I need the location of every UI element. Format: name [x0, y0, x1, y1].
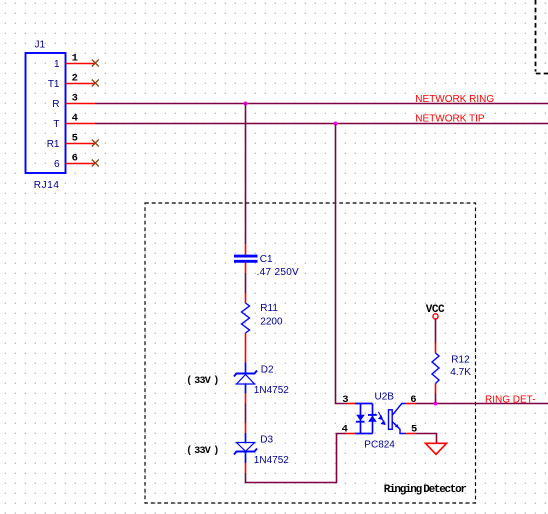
svg-text:.47 250V: .47 250V	[257, 267, 299, 278]
junction on NETWORK TIP	[334, 122, 338, 126]
R11 pin 1	[245, 293, 247, 303]
light arrow	[378, 412, 385, 425]
R12 pin 2	[435, 384, 437, 394]
wire tip branch to opto pin 3	[336, 124, 347, 404]
J1 pin 2 stub	[66, 83, 96, 85]
svg-text:VCC: VCC	[426, 304, 445, 316]
zener diode D2	[234, 363, 257, 394]
wire pin5 to ground	[416, 434, 437, 444]
svg-text:6: 6	[410, 394, 416, 406]
U2B pin 4 stub	[346, 433, 356, 435]
wire VCC to R12	[435, 319, 437, 344]
zener diode D3	[234, 433, 257, 463]
wire NETWORK RING	[95, 103, 548, 105]
J1 pin 3 stub	[66, 103, 96, 105]
dashed block fragment top-right	[536, 0, 548, 74]
junction at R12 bottom	[434, 402, 438, 406]
R11 pin 2 / D2 pin 1	[245, 333, 247, 363]
phototransistor of U2B	[389, 404, 407, 434]
U2B pin 3 stub	[347, 403, 356, 405]
wire RING DET-	[416, 403, 548, 405]
svg-text:6: 6	[54, 159, 60, 170]
wire D2 to D3	[245, 404, 247, 424]
svg-text:4: 4	[342, 424, 348, 436]
R12 pin 1	[435, 343, 437, 353]
svg-text:1: 1	[72, 53, 78, 65]
wire C1 to R11	[245, 273, 247, 294]
svg-text:5: 5	[72, 133, 78, 145]
U2B pin 6 stub	[406, 403, 416, 405]
no-connect X pin 6	[92, 160, 99, 167]
svg-text:NETWORK RING: NETWORK RING	[415, 94, 494, 105]
D2 pin 2	[245, 393, 247, 403]
svg-text:4.7K: 4.7K	[450, 367, 471, 378]
svg-text:D3: D3	[260, 435, 273, 446]
D3 pin 2	[245, 463, 247, 473]
VCC power symbol	[433, 314, 438, 319]
wire R12 to junction	[435, 394, 437, 404]
resistor R12	[432, 353, 439, 384]
no-connect X pin 1	[92, 60, 99, 67]
svg-text:(33V): (33V)	[186, 375, 219, 387]
svg-text:4: 4	[72, 113, 78, 125]
svg-text:6: 6	[72, 153, 78, 165]
wire NETWORK TIP	[95, 123, 548, 125]
no-connect X pin 5	[92, 140, 99, 147]
svg-text:2: 2	[72, 73, 78, 85]
svg-text:D2: D2	[261, 365, 274, 376]
svg-text:2200: 2200	[260, 317, 283, 328]
connector J1 body	[26, 53, 66, 173]
svg-text:1N4752: 1N4752	[254, 385, 289, 396]
svg-text:NETWORK TIP: NETWORK TIP	[415, 114, 485, 125]
C1 pin 1	[245, 244, 247, 255]
svg-text:U2B: U2B	[375, 392, 395, 403]
no-connect X pin 2	[92, 80, 99, 87]
wire bottom rail	[246, 434, 346, 483]
U2B pin 5 stub	[406, 433, 416, 435]
J1 pin 6 stub	[66, 163, 96, 165]
LED A of U2B	[356, 415, 365, 422]
svg-text:3: 3	[72, 93, 78, 105]
LED B of U2B	[368, 415, 377, 422]
svg-text:C1: C1	[260, 254, 273, 265]
svg-text:R1: R1	[47, 139, 60, 150]
svg-text:J1: J1	[35, 40, 46, 51]
svg-text:R11: R11	[260, 303, 278, 314]
resistor R11	[242, 303, 250, 333]
svg-text:T1: T1	[48, 79, 60, 90]
svg-text:(33V): (33V)	[186, 445, 219, 457]
svg-text:R: R	[52, 99, 59, 110]
svg-text:3: 3	[342, 394, 348, 406]
svg-text:PC824: PC824	[364, 440, 395, 451]
svg-text:1: 1	[54, 59, 60, 70]
junction on NETWORK RING	[244, 102, 248, 106]
emitter arrowhead	[395, 424, 399, 428]
wire ring branch upper	[245, 103, 247, 244]
ground symbol	[426, 443, 447, 454]
svg-text:RingingDetector: RingingDetector	[384, 484, 467, 496]
C1 pin 2	[245, 263, 247, 273]
svg-text:RING DET-: RING DET-	[485, 394, 536, 405]
capacitor C1	[234, 256, 258, 261]
optocoupler U2B LED side	[355, 404, 373, 434]
svg-text:1N4752: 1N4752	[254, 455, 289, 466]
svg-text:T: T	[53, 119, 59, 130]
svg-text:R12: R12	[451, 354, 470, 365]
J1 pin 5 stub	[66, 143, 96, 145]
svg-text:RJ14: RJ14	[34, 180, 60, 191]
dashed box Ringing Detector	[145, 203, 476, 503]
D3 pin 1	[245, 423, 247, 434]
J1 pin 1 stub	[66, 63, 96, 65]
J1 pin 4 stub	[66, 123, 96, 125]
